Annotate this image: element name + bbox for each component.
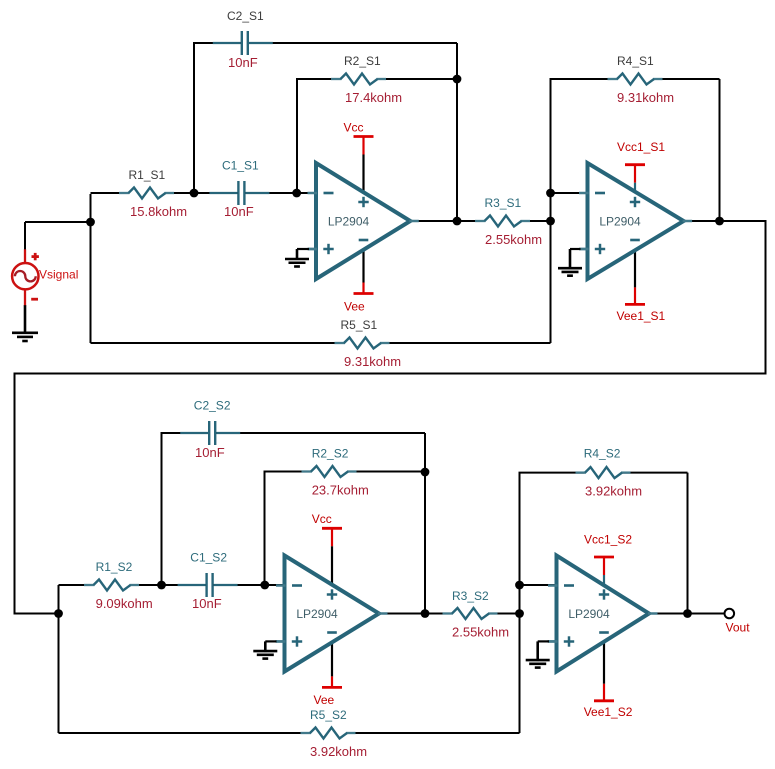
svg-text:LP2904: LP2904 — [296, 607, 338, 621]
svg-text:R2_S1: R2_S1 — [344, 54, 381, 68]
svg-text:C2_S2: C2_S2 — [194, 399, 231, 413]
svg-text:R5_S1: R5_S1 — [341, 318, 378, 332]
svg-text:Vout: Vout — [726, 621, 751, 635]
svg-text:3.92kohm: 3.92kohm — [310, 744, 367, 759]
svg-text:9.31kohm: 9.31kohm — [344, 354, 401, 369]
svg-text:2.55kohm: 2.55kohm — [485, 232, 542, 247]
svg-text:C1_S1: C1_S1 — [222, 159, 259, 173]
svg-text:R2_S2: R2_S2 — [312, 447, 349, 461]
svg-text:Vcc1_S2: Vcc1_S2 — [584, 532, 632, 546]
svg-text:R1_S2: R1_S2 — [96, 560, 133, 574]
svg-text:R3_S1: R3_S1 — [485, 196, 522, 210]
svg-text:Vcc: Vcc — [344, 120, 364, 134]
svg-text:Vee: Vee — [344, 299, 365, 313]
svg-text:Vee1_S1: Vee1_S1 — [617, 309, 666, 323]
svg-text:R1_S1: R1_S1 — [129, 168, 166, 182]
svg-text:10nF: 10nF — [224, 204, 254, 219]
svg-text:9.09kohm: 9.09kohm — [96, 596, 153, 611]
svg-text:Vee1_S2: Vee1_S2 — [584, 705, 633, 719]
svg-text:17.4kohm: 17.4kohm — [345, 90, 402, 105]
svg-text:C2_S1: C2_S1 — [227, 9, 264, 23]
svg-text:Vee: Vee — [314, 693, 335, 707]
svg-text:LP2904: LP2904 — [328, 215, 370, 229]
svg-text:R5_S2: R5_S2 — [310, 708, 347, 722]
svg-text:Vcc1_S1: Vcc1_S1 — [617, 140, 665, 154]
svg-text:LP2904: LP2904 — [568, 607, 610, 621]
svg-text:R4_S2: R4_S2 — [584, 447, 621, 461]
svg-text:R4_S1: R4_S1 — [617, 54, 654, 68]
svg-text:Vsignal: Vsignal — [39, 268, 78, 282]
svg-text:3.92kohm: 3.92kohm — [585, 484, 642, 499]
svg-text:23.7kohm: 23.7kohm — [312, 483, 369, 498]
svg-text:10nF: 10nF — [192, 596, 222, 611]
svg-text:10nF: 10nF — [228, 55, 258, 70]
svg-text:Vcc: Vcc — [312, 512, 332, 526]
svg-text:9.31kohm: 9.31kohm — [617, 90, 674, 105]
svg-text:R3_S2: R3_S2 — [452, 589, 489, 603]
svg-text:C1_S2: C1_S2 — [190, 551, 227, 565]
svg-text:15.8kohm: 15.8kohm — [130, 204, 187, 219]
svg-text:10nF: 10nF — [195, 445, 225, 460]
svg-text:LP2904: LP2904 — [599, 215, 641, 229]
svg-text:2.55kohm: 2.55kohm — [452, 625, 509, 640]
